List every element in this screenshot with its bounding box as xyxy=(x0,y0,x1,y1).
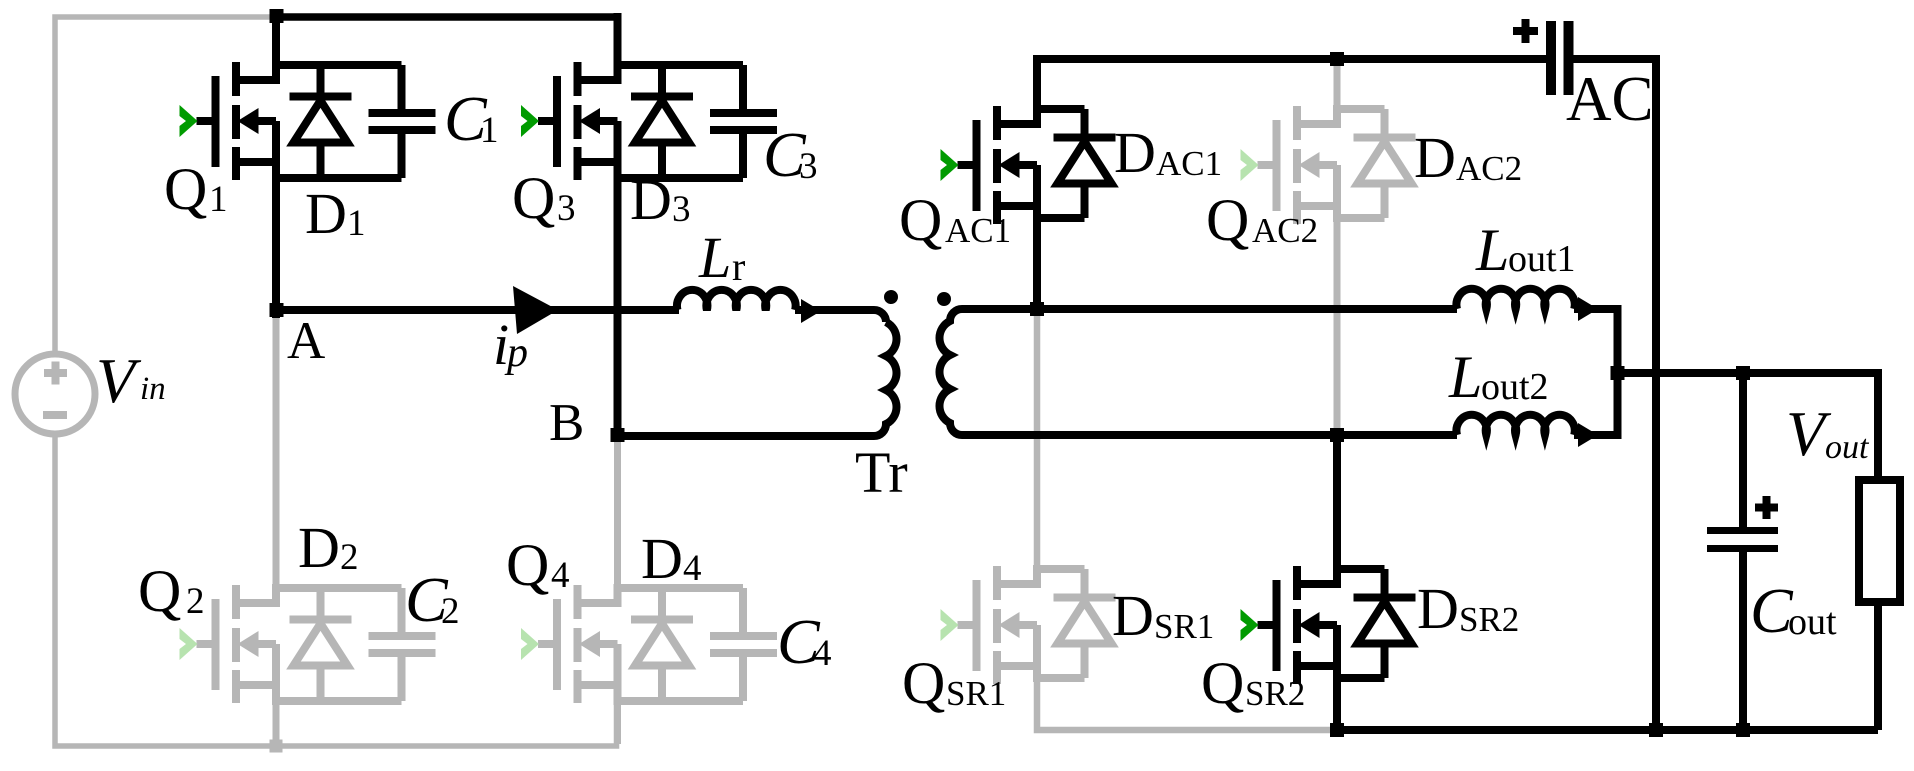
wire: secondary bottom from QSR2 node to Lout2 xyxy=(1332,431,1457,439)
wire: QAC1 drain riser xyxy=(1033,56,1041,124)
svg-text:p: p xyxy=(504,330,528,376)
wire: Lout1 to output node xyxy=(1574,309,1618,373)
svg-text:D: D xyxy=(641,526,683,591)
transistor Q3 xyxy=(538,62,618,180)
junction: output node xyxy=(1611,366,1625,380)
transistor QAC1 xyxy=(958,106,1038,224)
transformer Tr secondary winding + secondary top wire xyxy=(939,309,1457,435)
wire: load bottom leg xyxy=(1874,602,1882,730)
svg-text:L: L xyxy=(1448,344,1482,410)
diode D4 xyxy=(631,620,693,666)
wire: Q3 cell rails xyxy=(614,61,744,182)
arrow after Lr xyxy=(801,299,821,323)
wire: Q3 drain riser xyxy=(614,13,622,84)
junction: AC line on ground rail xyxy=(1649,723,1663,737)
svg-text:D: D xyxy=(305,181,347,246)
junction: top node xyxy=(270,9,284,23)
wire: Q1 source riser to node A xyxy=(272,158,280,318)
wire: QAC2 riser from top bus (gray) xyxy=(1334,62,1341,432)
capacitor Cout xyxy=(1707,527,1778,552)
wire: QAC1 cell rails xyxy=(1033,105,1085,222)
node A xyxy=(270,303,284,317)
wire: QSR1 riser from secondary top node (gray) xyxy=(1034,314,1041,588)
transistor Q4 xyxy=(538,585,618,703)
svg-text:r: r xyxy=(732,244,745,289)
svg-text:SR2: SR2 xyxy=(1245,674,1305,713)
wire: Cout top leg xyxy=(1739,369,1747,527)
junction: QSR2 drain / secondary bottom node xyxy=(1330,428,1344,442)
transistor Q2 xyxy=(197,585,277,703)
current arrow ip xyxy=(513,286,558,334)
svg-text:Q: Q xyxy=(164,156,207,222)
svg-text:L: L xyxy=(698,225,731,290)
wire: secondary top bus to capacitor AC xyxy=(1033,55,1546,63)
svg-text:1: 1 xyxy=(347,203,366,244)
wire: Q4 cell rails xyxy=(614,584,744,705)
plus sign of capacitor Cout xyxy=(1755,496,1778,519)
diode D1 xyxy=(290,97,352,143)
svg-text:4: 4 xyxy=(551,555,570,596)
svg-text:B: B xyxy=(549,394,584,452)
svg-text:AC: AC xyxy=(1566,64,1654,134)
svg-text:2: 2 xyxy=(441,591,460,632)
svg-text:A: A xyxy=(287,312,325,370)
wire: Q2 cell rails xyxy=(272,584,402,705)
svg-text:Q: Q xyxy=(506,532,549,598)
diode DAC2 xyxy=(1354,138,1416,184)
wire: Q1 drain riser xyxy=(272,13,280,84)
transistor QAC2 xyxy=(1258,106,1338,224)
transformer primary dot xyxy=(884,290,898,304)
svg-text:Q: Q xyxy=(138,558,181,624)
svg-text:Q: Q xyxy=(512,165,555,231)
arrow after Lout2 xyxy=(1578,423,1598,447)
svg-text:2: 2 xyxy=(340,537,359,578)
transistor QSR1 xyxy=(958,566,1038,684)
svg-text:out: out xyxy=(1788,601,1837,643)
wire: Q3 source riser to node B xyxy=(614,158,622,435)
diode DSR2 xyxy=(1354,598,1416,644)
svg-text:3: 3 xyxy=(672,189,691,230)
inductor Lout1 xyxy=(1456,289,1574,309)
svg-text:Q: Q xyxy=(902,650,945,716)
svg-text:V: V xyxy=(96,345,142,416)
svg-text:AC2: AC2 xyxy=(1252,211,1318,250)
wire: node A to Lr xyxy=(276,306,679,314)
svg-text:D: D xyxy=(630,167,672,232)
transistor Q1 xyxy=(197,62,277,180)
capacitor AC xyxy=(1546,21,1574,95)
svg-text:3: 3 xyxy=(557,188,576,229)
svg-text:in: in xyxy=(140,371,166,407)
svg-text:AC2: AC2 xyxy=(1456,149,1522,188)
plus sign of capacitor AC xyxy=(1513,19,1538,43)
wire: secondary ground rail (black part) xyxy=(1333,726,1878,734)
svg-text:2: 2 xyxy=(186,581,205,622)
diode DSR1 xyxy=(1054,598,1116,644)
wire: Vin loop (gray) xyxy=(55,17,617,746)
svg-text:1: 1 xyxy=(209,179,228,220)
svg-text:SR1: SR1 xyxy=(946,674,1006,713)
svg-text:out1: out1 xyxy=(1508,238,1576,280)
diode D2 xyxy=(290,620,352,666)
svg-text:out2: out2 xyxy=(1481,366,1549,408)
junction: QAC2 drain on secondary bus xyxy=(1330,52,1344,66)
svg-text:Q: Q xyxy=(1201,650,1244,716)
wire: QSR1 cell rails xyxy=(1033,565,1085,682)
wire: Cout bottom leg xyxy=(1739,552,1747,730)
svg-text:D: D xyxy=(1112,583,1154,648)
svg-text:D: D xyxy=(1414,125,1456,190)
wire: Q2 drain riser (gray) xyxy=(273,317,280,607)
wire: Q1 cell rails xyxy=(272,61,402,182)
inductor Lr xyxy=(677,290,796,310)
wire: QSR1 source to secondary ground rail (gray) xyxy=(1037,666,1340,730)
wire: output node to load xyxy=(1611,373,1878,480)
capacitor C1 xyxy=(369,109,436,134)
wire: Lr to transformer primary xyxy=(795,310,886,322)
svg-text:4: 4 xyxy=(683,548,702,589)
voltage source Vin xyxy=(15,354,95,434)
transformer Tr primary winding xyxy=(622,322,897,436)
svg-text:D: D xyxy=(1114,120,1156,185)
svg-text:3: 3 xyxy=(799,146,818,187)
capacitor C3 xyxy=(710,109,777,134)
wire: primary top bus xyxy=(270,13,622,21)
arrow after Lout1 xyxy=(1578,297,1598,321)
svg-text:Q: Q xyxy=(1206,187,1249,253)
inductor Lout2 xyxy=(1456,415,1574,435)
svg-text:SR1: SR1 xyxy=(1154,607,1214,646)
wire: capacitor AC to right corner, down to ground rail xyxy=(1574,59,1657,730)
svg-text:D: D xyxy=(298,515,340,580)
svg-text:1: 1 xyxy=(480,110,499,151)
junction: Cout top xyxy=(1736,366,1750,380)
svg-text:D: D xyxy=(1417,576,1459,641)
svg-text:4: 4 xyxy=(813,633,832,674)
transformer secondary dot xyxy=(937,292,951,306)
wire: Q2 source riser (gray) xyxy=(273,685,280,746)
wire: QSR2 cell rails xyxy=(1333,565,1385,682)
svg-text:AC1: AC1 xyxy=(945,211,1011,250)
capacitor C4 xyxy=(710,632,777,657)
svg-text:SR2: SR2 xyxy=(1459,600,1519,639)
capacitor C2 xyxy=(369,632,436,657)
transistor QSR2 xyxy=(1258,566,1338,684)
wire: QSR2 drain riser xyxy=(1333,432,1341,588)
node B xyxy=(611,428,625,442)
wire: QAC1 source riser xyxy=(1033,202,1041,313)
svg-text:L: L xyxy=(1475,217,1509,283)
junction: Cout bottom on ground rail xyxy=(1736,723,1750,737)
junction: QSR2 source on ground rail xyxy=(1330,723,1344,737)
resistor load Vout xyxy=(1859,480,1900,602)
svg-text:out: out xyxy=(1825,429,1870,466)
svg-text:Tr: Tr xyxy=(855,440,908,505)
wire: Lout2 up to output node xyxy=(1574,373,1618,435)
svg-text:AC1: AC1 xyxy=(1156,144,1222,183)
junction: QAC1 source / secondary top node xyxy=(1030,302,1044,316)
diode D3 xyxy=(631,97,693,143)
svg-text:Q: Q xyxy=(899,187,942,253)
wire: QAC2 cell rails xyxy=(1333,105,1385,222)
junction: Q2 source on primary rail (gray) xyxy=(270,740,283,753)
wire: QSR2 source riser xyxy=(1333,666,1341,730)
wire: Q4 drain riser (gray) xyxy=(614,442,621,607)
wire: Q4 source riser (gray) xyxy=(614,685,621,744)
diode DAC1 xyxy=(1054,138,1116,184)
